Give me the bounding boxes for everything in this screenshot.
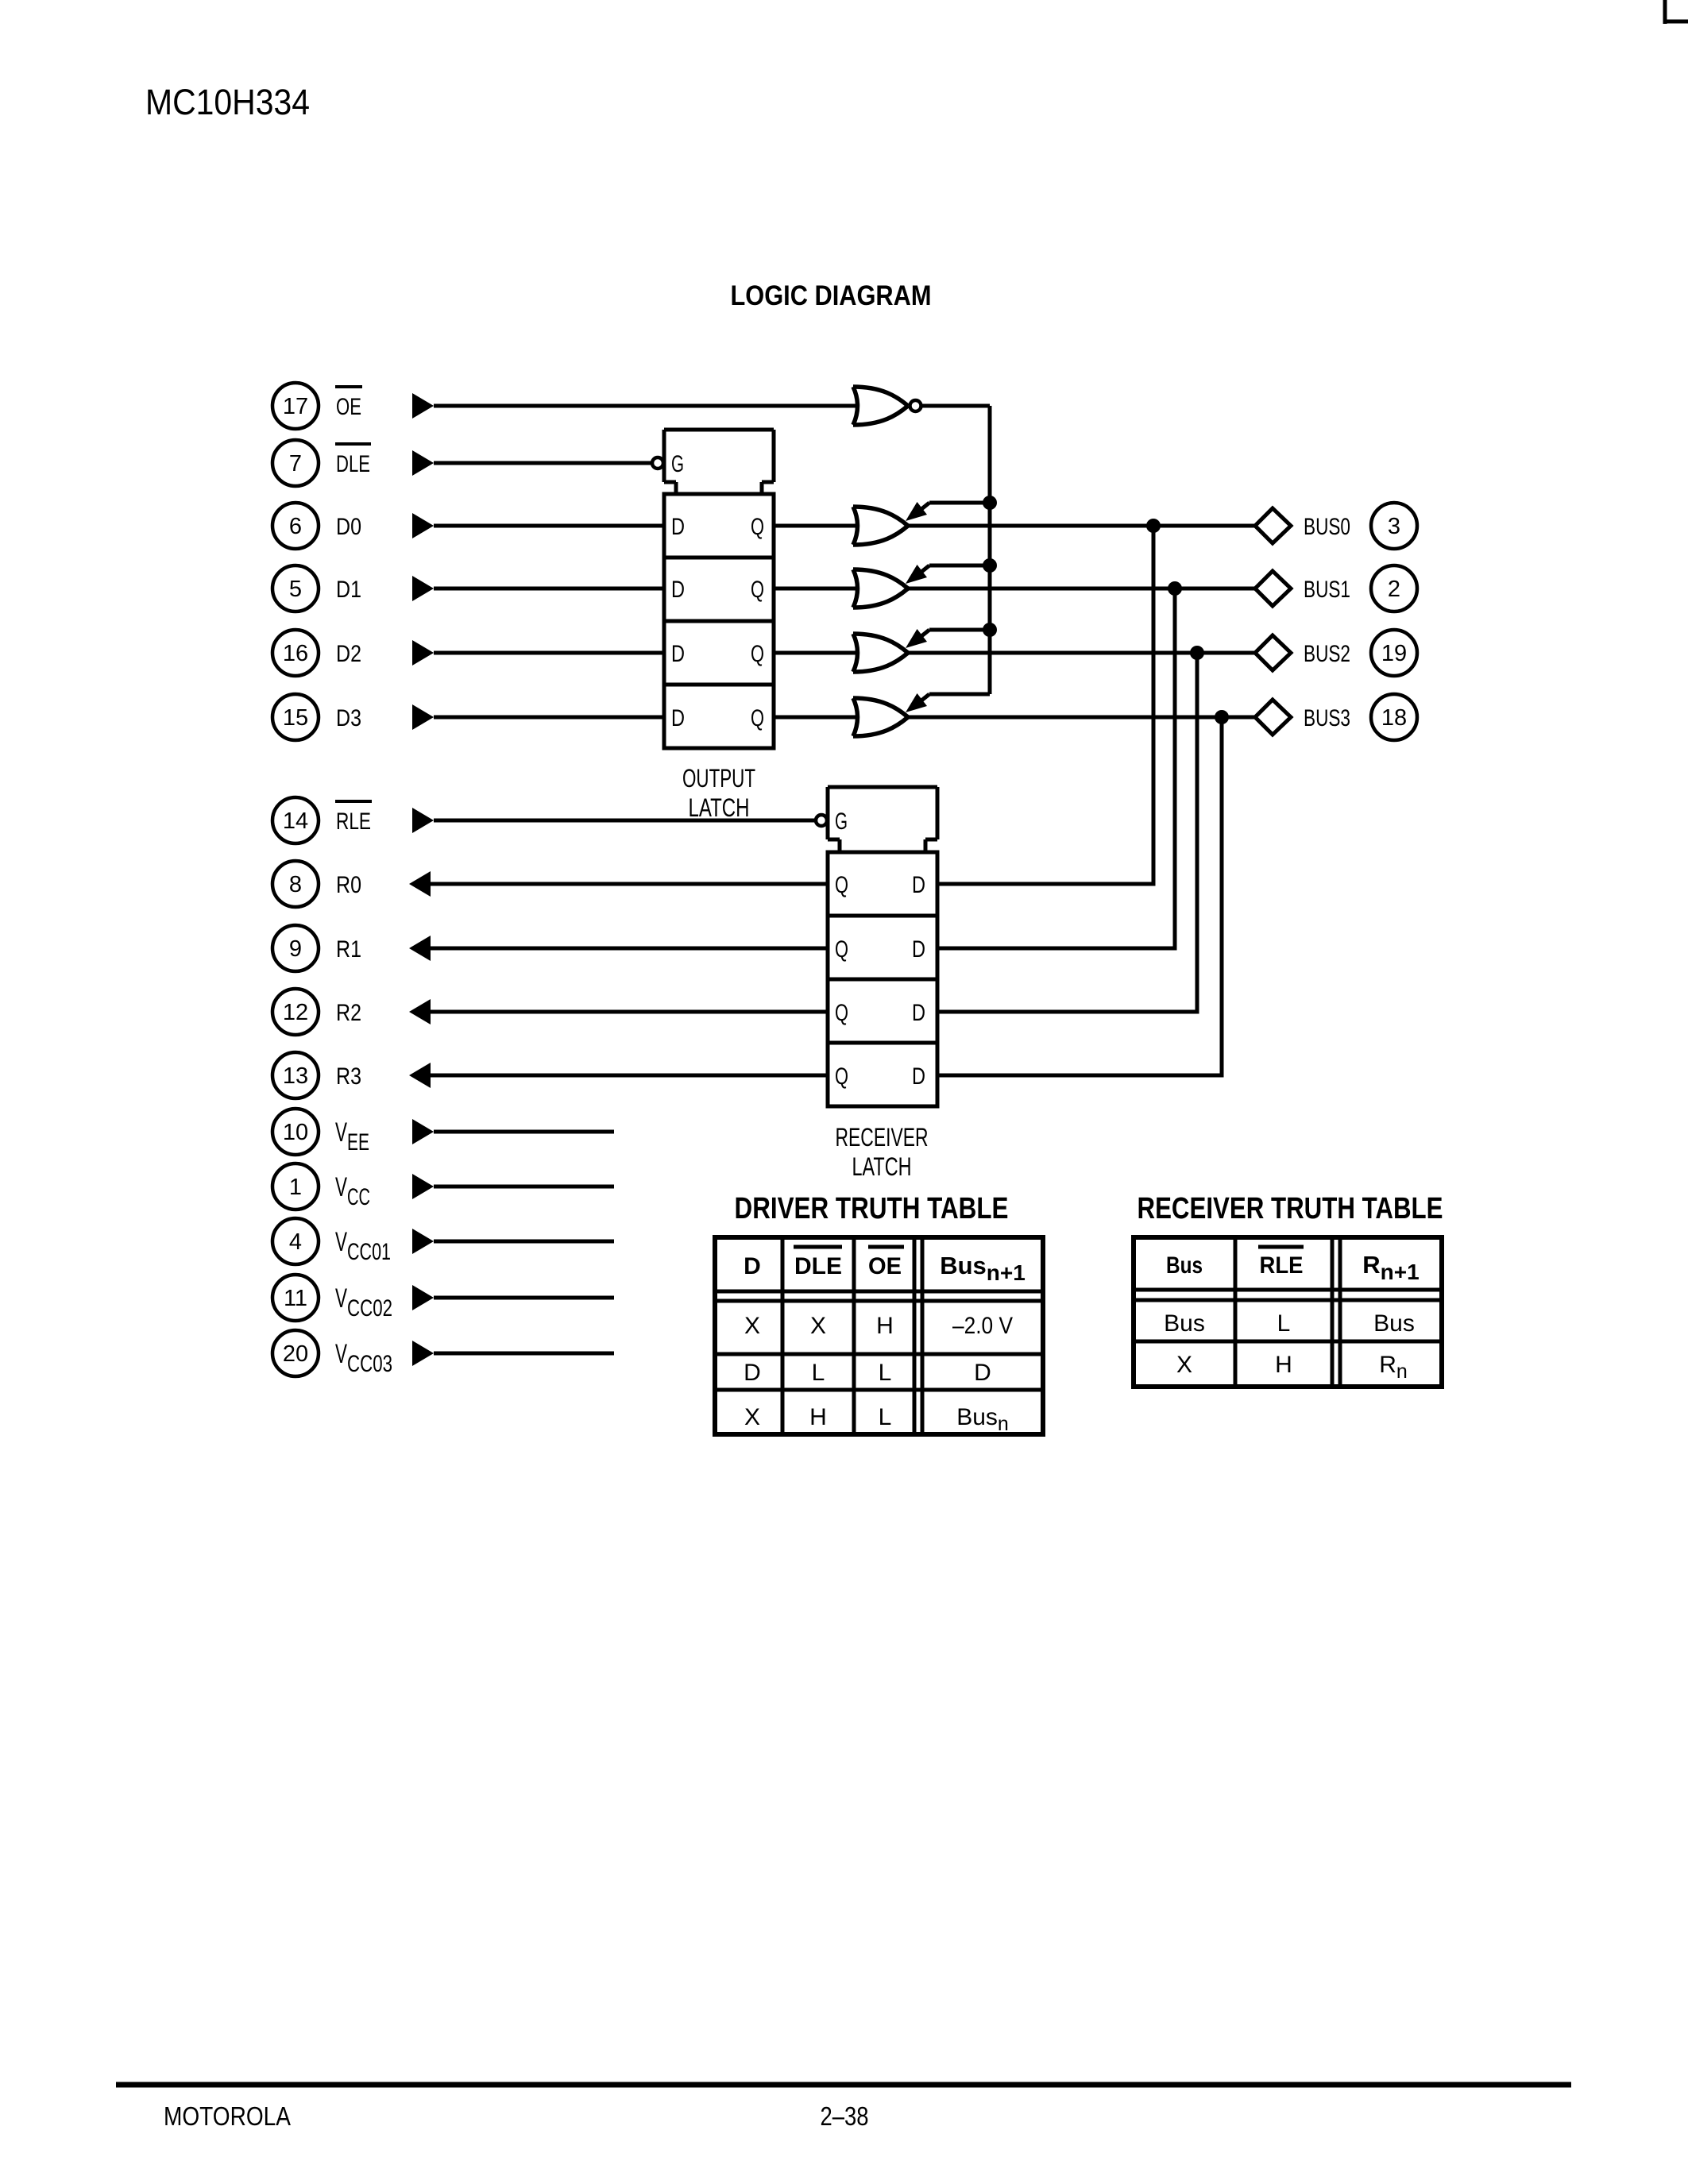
- svg-text:LATCH: LATCH: [852, 1152, 912, 1181]
- svg-text:15: 15: [283, 705, 308, 731]
- svg-text:11: 11: [284, 1286, 307, 1311]
- wire D0 to output latch: [434, 524, 666, 528]
- footer MOTOROLA: [164, 2101, 291, 2131]
- svg-text:R3: R3: [336, 1063, 361, 1090]
- svg-text:18: 18: [1381, 705, 1407, 731]
- receiver latch cell R3 labels: [835, 1063, 925, 1090]
- receiver truth table header: [1166, 1247, 1420, 1284]
- wire D2 to output latch: [434, 651, 666, 655]
- driver truth table row 2: [744, 1360, 991, 1386]
- input buffer arrow VCC03: [412, 1341, 434, 1366]
- wire VCC03 stub: [434, 1352, 614, 1356]
- or-gate U4 body: [853, 569, 908, 608]
- net label BUS0: [1304, 514, 1350, 540]
- input buffer arrow D0: [412, 513, 434, 538]
- wire DLE to output latch G bubble: [434, 461, 651, 465]
- bus terminal diamond BUS3: [1255, 700, 1291, 735]
- feedback junction dot D2: [983, 623, 997, 637]
- feedback vertical wire: [988, 406, 992, 694]
- footer page number 2-38: [821, 2101, 869, 2131]
- svg-text:CC03: CC03: [347, 1351, 392, 1377]
- pin circle 6: [272, 503, 319, 549]
- svg-text:Q: Q: [835, 936, 848, 963]
- svg-text:RECEIVER TRUTH TABLE: RECEIVER TRUTH TABLE: [1138, 1192, 1443, 1225]
- junction dot BUS3: [1215, 710, 1229, 724]
- svg-text:D: D: [912, 1000, 925, 1026]
- svg-text:CC02: CC02: [347, 1295, 392, 1322]
- input buffer arrow VCC02: [412, 1285, 434, 1310]
- pin circle 10: [272, 1109, 319, 1155]
- svg-text:OUTPUT: OUTPUT: [682, 764, 755, 793]
- receiver latch U7 gate box: [828, 787, 937, 853]
- svg-text:7: 7: [289, 451, 302, 477]
- receiver latch cell R2 labels: [835, 1000, 925, 1026]
- net label R1: [336, 936, 361, 963]
- receiver truth table row 2: [1176, 1352, 1408, 1383]
- or-gate U6 body: [853, 698, 908, 736]
- net label VEE: [335, 1117, 369, 1156]
- svg-text:DLE: DLE: [336, 451, 370, 477]
- net label D1: [336, 577, 361, 603]
- net label OE: [335, 387, 362, 420]
- nor-gate U1 body: [853, 387, 908, 425]
- receiver truth table title: [1138, 1192, 1443, 1225]
- pin circle 20: [272, 1330, 319, 1376]
- svg-text:D: D: [912, 872, 925, 898]
- or-gate U5 body: [853, 634, 908, 672]
- output latch U2 data box: [664, 494, 774, 748]
- net label VCC: [335, 1172, 370, 1210]
- svg-text:Q: Q: [751, 705, 764, 731]
- svg-text:R2: R2: [336, 1000, 361, 1026]
- input buffer arrow VCC01: [412, 1229, 434, 1254]
- svg-text:Q: Q: [835, 872, 848, 898]
- svg-text:9: 9: [289, 936, 302, 962]
- net label VCC02: [335, 1283, 392, 1322]
- svg-text:DLE: DLE: [794, 1253, 842, 1279]
- svg-text:Q: Q: [751, 514, 764, 540]
- svg-text:V: V: [335, 1227, 347, 1257]
- svg-text:LATCH: LATCH: [689, 793, 750, 822]
- footer rule: [116, 2082, 1571, 2088]
- wire OE to NOR gate: [434, 404, 856, 408]
- net label R0: [336, 872, 361, 898]
- heading LOGIC DIAGRAM: [731, 280, 932, 311]
- svg-text:D: D: [912, 936, 925, 963]
- input buffer arrow VEE: [412, 1119, 434, 1144]
- wire receiver latch to R1: [431, 947, 828, 951]
- label OUTPUT LATCH: [682, 764, 755, 822]
- input buffer arrow RLE: [412, 808, 434, 833]
- wire output latch Q to or-gate U5: [774, 651, 856, 655]
- net label D2: [336, 641, 361, 667]
- svg-text:Q: Q: [835, 1000, 848, 1026]
- svg-text:Q: Q: [751, 577, 764, 603]
- wire receiver latch to R0: [431, 882, 828, 886]
- wire BUS1 to receiver R1: [938, 588, 1175, 948]
- wire VCC stub: [434, 1185, 614, 1189]
- svg-text:8: 8: [289, 872, 302, 897]
- pin circle 18: [1371, 694, 1417, 740]
- svg-text:2: 2: [1388, 577, 1400, 602]
- svg-text:D: D: [671, 705, 685, 731]
- svg-text:L: L: [812, 1360, 825, 1386]
- pin circle 5: [272, 565, 319, 612]
- input buffer arrow D1: [412, 576, 434, 601]
- svg-text:MOTOROLA: MOTOROLA: [164, 2101, 291, 2131]
- pin circle 4: [272, 1218, 319, 1264]
- svg-text:BUS2: BUS2: [1304, 641, 1350, 667]
- svg-text:V: V: [335, 1172, 347, 1202]
- input buffer arrow D2: [412, 640, 434, 666]
- receiver latch G bubble: [816, 815, 827, 826]
- wire BUS0 to receiver R0: [938, 526, 1153, 884]
- receiver latch G label: [835, 808, 848, 835]
- svg-text:D: D: [974, 1360, 991, 1386]
- svg-text:2–38: 2–38: [821, 2101, 869, 2131]
- wire VCC02 stub: [434, 1296, 614, 1300]
- svg-text:Bus: Bus: [1373, 1310, 1415, 1337]
- svg-text:10: 10: [283, 1120, 308, 1145]
- net label VCC01: [335, 1227, 391, 1265]
- pin circle 2: [1371, 565, 1417, 612]
- receiver latch cell R0 labels: [835, 872, 925, 898]
- svg-text:R1: R1: [336, 936, 361, 963]
- wire BUS3 line: [908, 716, 1255, 720]
- svg-text:D: D: [744, 1360, 761, 1386]
- wire VCC01 stub: [434, 1240, 614, 1244]
- page title MC10H334: [145, 82, 310, 122]
- svg-text:D: D: [744, 1253, 761, 1279]
- feedback arrow into or-gate U5: [906, 629, 990, 648]
- svg-text:D: D: [671, 641, 685, 667]
- svg-text:D1: D1: [336, 577, 361, 603]
- wire BUS0 line: [908, 524, 1255, 528]
- pin circle 8: [272, 861, 319, 907]
- svg-text:X: X: [1176, 1352, 1192, 1378]
- driver truth table row 1: [744, 1313, 1013, 1339]
- svg-text:CC01: CC01: [347, 1239, 391, 1265]
- pin circle 16: [272, 630, 319, 676]
- svg-text:Q: Q: [835, 1063, 848, 1090]
- svg-text:D: D: [671, 514, 685, 540]
- svg-text:H: H: [876, 1313, 894, 1339]
- svg-text:V: V: [335, 1339, 347, 1369]
- feedback arrow into or-gate U4: [906, 565, 990, 584]
- pin circle 17: [272, 383, 319, 429]
- svg-text:RLE: RLE: [336, 808, 371, 835]
- junction dot BUS0: [1146, 519, 1161, 533]
- input buffer arrow OE: [412, 393, 434, 419]
- wire output latch Q to or-gate U4: [774, 587, 856, 591]
- svg-text:G: G: [835, 808, 848, 835]
- pin circle 9: [272, 925, 319, 971]
- svg-text:CC: CC: [347, 1184, 370, 1210]
- svg-text:5: 5: [289, 577, 302, 602]
- svg-text:D3: D3: [336, 705, 361, 731]
- wire receiver latch to R3: [431, 1074, 828, 1078]
- bus terminal diamond BUS0: [1255, 508, 1291, 543]
- svg-text:X: X: [810, 1313, 826, 1339]
- svg-text:EE: EE: [347, 1129, 369, 1156]
- output arrow R3: [409, 1063, 431, 1088]
- svg-text:D: D: [671, 577, 685, 603]
- svg-text:Bus: Bus: [1164, 1310, 1205, 1337]
- wire RLE to receiver latch G bubble: [434, 819, 815, 823]
- pin circle 1: [272, 1163, 319, 1210]
- svg-text:H: H: [1275, 1352, 1292, 1378]
- net label BUS3: [1304, 705, 1350, 731]
- net label D0: [336, 514, 361, 540]
- svg-text:17: 17: [283, 394, 308, 419]
- svg-text:G: G: [671, 451, 684, 477]
- driver truth table header: [744, 1247, 1026, 1285]
- or-gate U3 body: [853, 507, 908, 545]
- wire D3 to output latch: [434, 716, 666, 720]
- wire BUS1 line: [908, 587, 1255, 591]
- svg-text:Bus: Bus: [1166, 1252, 1203, 1279]
- pin circle 13: [272, 1052, 319, 1098]
- output latch cell D1 labels: [671, 577, 764, 603]
- svg-text:19: 19: [1381, 641, 1407, 666]
- label RECEIVER LATCH: [836, 1123, 929, 1181]
- svg-text:1: 1: [289, 1175, 302, 1200]
- feedback arrow into or-gate U6: [906, 693, 990, 712]
- svg-text:BUS1: BUS1: [1304, 577, 1350, 603]
- svg-text:D2: D2: [336, 641, 361, 667]
- pin circle 12: [272, 989, 319, 1035]
- svg-text:Q: Q: [751, 641, 764, 667]
- net label D3: [336, 705, 361, 731]
- junction dot BUS1: [1168, 581, 1182, 596]
- net label BUS2: [1304, 641, 1350, 667]
- svg-text:MC10H334: MC10H334: [145, 82, 310, 122]
- svg-text:H: H: [809, 1404, 827, 1430]
- pin circle 7: [272, 440, 319, 486]
- receiver truth table grid: [1134, 1237, 1442, 1387]
- svg-text:R0: R0: [336, 872, 361, 898]
- wire BUS2 to receiver R2: [938, 653, 1197, 1012]
- feedback junction dot D0: [983, 496, 997, 510]
- svg-text:RECEIVER: RECEIVER: [836, 1123, 929, 1152]
- svg-text:BUS3: BUS3: [1304, 705, 1350, 731]
- bus terminal diamond BUS1: [1255, 571, 1291, 606]
- wire BUS3 to receiver R3: [938, 717, 1222, 1075]
- wire BUS2 line: [908, 651, 1255, 655]
- svg-text:13: 13: [283, 1063, 308, 1089]
- svg-text:–2.0 V: –2.0 V: [952, 1313, 1013, 1339]
- output latch U2 gate box: [664, 430, 774, 496]
- svg-text:3: 3: [1388, 514, 1400, 539]
- pin circle 19: [1371, 630, 1417, 676]
- net label BUS1: [1304, 577, 1350, 603]
- svg-text:D: D: [912, 1063, 925, 1090]
- wire receiver latch to R2: [431, 1010, 828, 1014]
- wire U1 output to feedback bus: [922, 404, 990, 408]
- svg-text:LOGIC DIAGRAM: LOGIC DIAGRAM: [731, 280, 932, 311]
- feedback junction dot D1: [983, 558, 997, 573]
- output arrow R0: [409, 871, 431, 897]
- input buffer arrow D3: [412, 704, 434, 730]
- output arrow R1: [409, 936, 431, 961]
- wire D1 to output latch: [434, 587, 666, 591]
- driver truth table row 3: [744, 1404, 1009, 1435]
- pin circle 3: [1371, 503, 1417, 549]
- net label RLE: [335, 801, 372, 835]
- svg-text:OE: OE: [336, 394, 361, 420]
- svg-text:L: L: [1277, 1310, 1291, 1337]
- input buffer arrow VCC: [412, 1174, 434, 1199]
- svg-text:6: 6: [289, 514, 302, 539]
- junction dot BUS2: [1190, 646, 1204, 660]
- svg-text:L: L: [879, 1404, 892, 1430]
- pin circle 15: [272, 694, 319, 740]
- svg-text:X: X: [744, 1313, 760, 1339]
- output latch G label: [671, 451, 684, 477]
- output arrow R2: [409, 999, 431, 1024]
- svg-text:X: X: [744, 1404, 760, 1430]
- output latch G bubble: [652, 457, 663, 469]
- net label R2: [336, 1000, 361, 1026]
- wire output latch Q to or-gate U3: [774, 524, 856, 528]
- receiver latch cell R1 labels: [835, 936, 925, 963]
- net label DLE: [335, 444, 371, 477]
- feedback arrow into or-gate U3: [906, 502, 990, 521]
- svg-text:V: V: [335, 1283, 347, 1314]
- bus terminal diamond BUS2: [1255, 635, 1291, 670]
- nor-gate U1 output bubble: [910, 400, 921, 411]
- svg-text:16: 16: [283, 641, 308, 666]
- pin circle 14: [272, 797, 319, 843]
- corner trim mark: [1663, 0, 1688, 24]
- wire VEE stub: [434, 1130, 614, 1134]
- driver truth table title: [735, 1192, 1009, 1225]
- net label R3: [336, 1063, 361, 1090]
- svg-text:DRIVER TRUTH TABLE: DRIVER TRUTH TABLE: [735, 1192, 1009, 1225]
- output latch cell D0 labels: [671, 514, 764, 540]
- wire output latch Q to or-gate U6: [774, 716, 856, 720]
- svg-text:OE: OE: [868, 1253, 902, 1279]
- svg-text:RLE: RLE: [1260, 1252, 1304, 1279]
- svg-text:BUS0: BUS0: [1304, 514, 1350, 540]
- input buffer arrow DLE: [412, 450, 434, 476]
- svg-text:12: 12: [283, 1000, 308, 1025]
- svg-text:D0: D0: [336, 514, 361, 540]
- output latch cell D2 labels: [671, 641, 764, 667]
- net label VCC03: [335, 1339, 392, 1377]
- svg-text:L: L: [879, 1360, 892, 1386]
- svg-text:V: V: [335, 1117, 347, 1148]
- svg-text:20: 20: [283, 1341, 308, 1367]
- receiver latch U7 data box: [828, 852, 937, 1106]
- receiver truth table row 1: [1164, 1310, 1415, 1337]
- svg-text:4: 4: [289, 1229, 302, 1255]
- driver truth table grid: [715, 1237, 1043, 1434]
- svg-text:14: 14: [283, 808, 308, 834]
- output latch cell D3 labels: [671, 705, 764, 731]
- pin circle 11: [272, 1275, 319, 1321]
